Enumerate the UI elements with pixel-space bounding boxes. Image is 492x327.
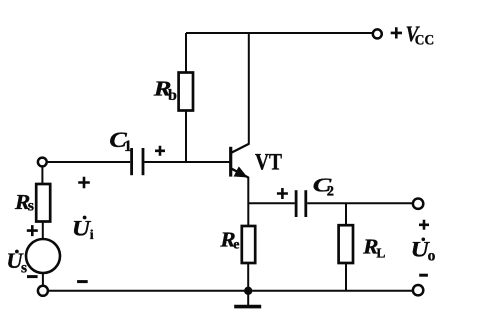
svg-text:i: i	[90, 228, 94, 243]
svg-text:b: b	[168, 87, 177, 104]
svg-text:VT: VT	[255, 150, 282, 175]
svg-text:L: L	[376, 246, 385, 261]
svg-text:e: e	[233, 238, 239, 253]
svg-text:2: 2	[327, 184, 334, 200]
svg-text:s: s	[21, 259, 27, 276]
svg-text:CC: CC	[415, 32, 434, 48]
svg-text:U: U	[72, 215, 91, 240]
svg-text:o: o	[428, 248, 436, 265]
svg-text:1: 1	[124, 138, 132, 155]
svg-text:s: s	[28, 197, 34, 214]
